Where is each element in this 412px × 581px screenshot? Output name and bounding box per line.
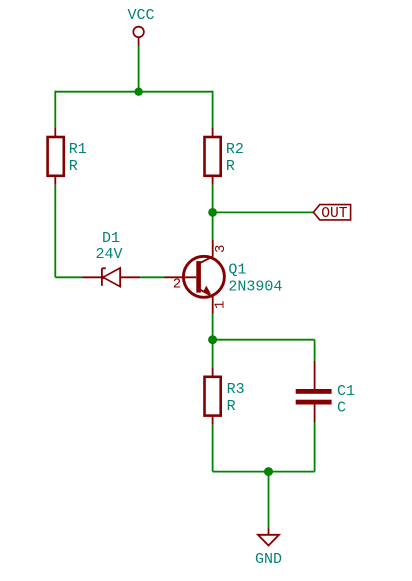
- svg-text:C1: C1: [337, 383, 355, 400]
- wire cap branch upper: [314, 340, 316, 361]
- power flag VCC: [127, 7, 154, 46]
- wire bottom horizontal: [213, 471, 315, 473]
- svg-text:2N3904: 2N3904: [228, 278, 282, 295]
- wire GND vertical: [268, 472, 270, 529]
- wire emitter node horizontal: [213, 339, 315, 341]
- wire right vertical upper: [212, 91, 214, 128]
- label OUT: [313, 205, 350, 223]
- svg-text:24V: 24V: [95, 246, 122, 263]
- junction OUT node: [208, 208, 217, 217]
- wire top horizontal: [55, 91, 212, 93]
- svg-text:VCC: VCC: [127, 7, 154, 24]
- svg-text:R1: R1: [69, 141, 87, 158]
- wire VCC stem: [138, 46, 140, 92]
- wire left to diode: [55, 276, 82, 278]
- svg-text:R: R: [226, 158, 235, 175]
- wire cap branch lower: [314, 422, 316, 472]
- wire emitter down: [212, 314, 214, 340]
- resistor R1: [48, 128, 87, 185]
- svg-text:R2: R2: [226, 141, 244, 158]
- svg-text:2: 2: [173, 277, 181, 293]
- wire diode to base: [140, 276, 164, 278]
- svg-text:GND: GND: [255, 551, 282, 568]
- svg-text:C: C: [337, 399, 346, 416]
- svg-text:3: 3: [213, 245, 229, 253]
- wire R3 bottom: [212, 425, 214, 472]
- transistor Q1: [165, 240, 283, 314]
- svg-text:R3: R3: [227, 381, 245, 398]
- junction GND node: [264, 467, 273, 476]
- junction VCC node: [134, 88, 142, 96]
- wire R2 to collector: [212, 185, 214, 240]
- diode D1: [83, 230, 141, 287]
- svg-text:D1: D1: [102, 230, 120, 247]
- svg-text:Q1: Q1: [228, 262, 246, 279]
- wire OUT: [213, 211, 314, 213]
- resistor R3: [205, 368, 245, 425]
- resistor R2: [205, 128, 244, 185]
- svg-text:OUT: OUT: [321, 206, 348, 222]
- svg-text:R: R: [227, 398, 236, 415]
- ground: [255, 528, 282, 568]
- wire R3 top: [212, 340, 214, 368]
- junction emitter node: [208, 335, 217, 344]
- svg-text:1: 1: [213, 301, 229, 309]
- capacitor C1: [296, 361, 355, 422]
- wire left vertical lower: [54, 185, 56, 277]
- wire left vertical upper: [54, 91, 56, 128]
- svg-text:R: R: [69, 158, 78, 175]
